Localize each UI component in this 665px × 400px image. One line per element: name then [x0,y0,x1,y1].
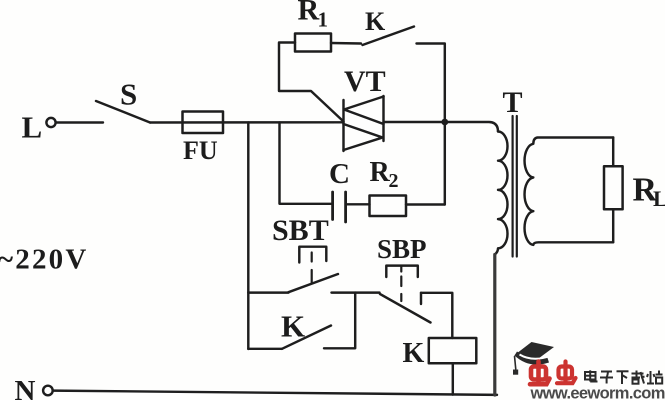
svg-text:C: C [329,158,350,190]
svg-text:L: L [653,186,665,211]
svg-text:N: N [15,375,36,400]
svg-text:R: R [298,0,320,27]
svg-text:K: K [365,7,386,36]
svg-text:R: R [370,157,391,188]
svg-text:www.eeworm.com: www.eeworm.com [530,385,665,400]
svg-text:K: K [403,338,425,369]
svg-text:VT: VT [344,65,386,98]
svg-text:L: L [22,110,43,145]
svg-text:~220V: ~220V [0,244,89,276]
svg-text:T: T [503,86,523,119]
svg-text:1: 1 [318,8,329,32]
svg-text:2: 2 [389,170,399,192]
svg-text:K: K [281,309,305,344]
svg-text:SBT: SBT [272,214,329,247]
svg-text:FU: FU [183,136,218,165]
svg-text:SBP: SBP [377,234,427,264]
svg-text:S: S [120,77,137,112]
